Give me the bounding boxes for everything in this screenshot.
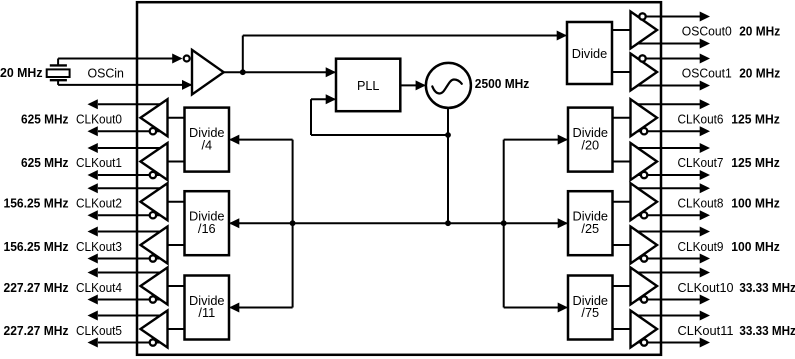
svg-text:CLKout0: CLKout0 [76, 112, 122, 127]
svg-text:CLKout5: CLKout5 [76, 323, 122, 338]
svg-text:Divide: Divide [572, 46, 608, 61]
svg-text:/16: /16 [198, 221, 216, 236]
svg-text:125 MHz: 125 MHz [731, 155, 780, 170]
svg-text:/11: /11 [198, 305, 215, 320]
svg-text:100 MHz: 100 MHz [731, 239, 780, 254]
svg-text:CLKout2: CLKout2 [76, 196, 122, 211]
svg-text:227.27 MHz: 227.27 MHz [4, 323, 69, 338]
svg-text:CLKout3: CLKout3 [76, 239, 122, 254]
svg-text:CLKout9: CLKout9 [678, 239, 724, 254]
svg-text:156.25 MHz: 156.25 MHz [4, 239, 69, 254]
svg-text:625 MHz: 625 MHz [21, 112, 69, 127]
svg-text:125 MHz: 125 MHz [731, 112, 780, 127]
svg-text:625 MHz: 625 MHz [21, 155, 69, 170]
svg-text:PLL: PLL [357, 78, 380, 93]
svg-text:CLKout11: CLKout11 [678, 323, 734, 338]
svg-text:/25: /25 [581, 221, 599, 236]
svg-text:CLKout6: CLKout6 [678, 112, 724, 127]
svg-text:/20: /20 [581, 137, 599, 152]
svg-text:OSCout0: OSCout0 [682, 24, 732, 39]
svg-text:227.27 MHz: 227.27 MHz [4, 280, 69, 295]
svg-text:2500 MHz: 2500 MHz [475, 76, 530, 91]
svg-text:/4: /4 [201, 137, 212, 152]
svg-text:OSCout1: OSCout1 [682, 66, 732, 81]
svg-text:CLKout7: CLKout7 [678, 155, 724, 170]
svg-text:CLKout10: CLKout10 [678, 280, 734, 295]
svg-text:OSCin: OSCin [87, 65, 124, 80]
svg-text:CLKout1: CLKout1 [76, 155, 122, 170]
svg-text:/75: /75 [581, 305, 599, 320]
svg-text:20 MHz: 20 MHz [0, 65, 43, 80]
svg-text:33.33 MHz: 33.33 MHz [739, 280, 795, 295]
svg-text:CLKout4: CLKout4 [76, 280, 122, 295]
svg-text:100 MHz: 100 MHz [731, 196, 780, 211]
svg-text:CLKout8: CLKout8 [678, 196, 724, 211]
svg-text:20 MHz: 20 MHz [739, 24, 780, 39]
svg-text:33.33 MHz: 33.33 MHz [739, 323, 795, 338]
svg-text:156.25 MHz: 156.25 MHz [4, 196, 69, 211]
svg-text:20 MHz: 20 MHz [739, 66, 780, 81]
